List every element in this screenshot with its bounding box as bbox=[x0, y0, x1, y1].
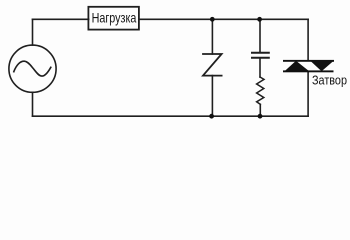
capacitor C1 plates bbox=[252, 52, 269, 54]
wire Z branch bottom bbox=[211, 76, 213, 117]
wire source top lead bbox=[32, 19, 34, 45]
triac Q1 bottom bar bbox=[283, 70, 334, 72]
junction dot bottom-right node bbox=[258, 114, 263, 119]
triac Q1 left triangle bbox=[285, 61, 310, 71]
wire RC branch top bbox=[259, 19, 261, 52]
wire Z branch top bbox=[211, 19, 213, 54]
wire source bottom lead bbox=[32, 92, 34, 116]
triac Q1 top bar bbox=[283, 60, 334, 62]
sine wave inside source bbox=[14, 61, 51, 76]
breakdown device D1 (Z symbol) bbox=[203, 54, 222, 76]
junction dot top-left node bbox=[210, 17, 215, 22]
triac Q1 right triangle bbox=[311, 61, 334, 71]
wire cap to resistor bbox=[259, 58, 261, 77]
wire top left to load bbox=[33, 18, 89, 20]
junction dot bottom-left node bbox=[209, 114, 214, 119]
wire bottom rail bbox=[33, 115, 309, 117]
wire top from load to right corner bbox=[139, 18, 308, 20]
resistor R1 zigzag bbox=[257, 77, 264, 104]
wire triac bottom lead bbox=[307, 72, 309, 117]
AC source V1 bbox=[9, 45, 56, 92]
wire right vertical to triac bbox=[307, 19, 309, 60]
junction dot top-right node bbox=[257, 17, 262, 22]
wire resistor to bottom bbox=[259, 104, 261, 116]
load box Нагрузка bbox=[88, 7, 138, 30]
svg-text:Нагрузка: Нагрузка bbox=[92, 9, 137, 25]
svg-text:Затвор: Затвор bbox=[312, 74, 347, 88]
